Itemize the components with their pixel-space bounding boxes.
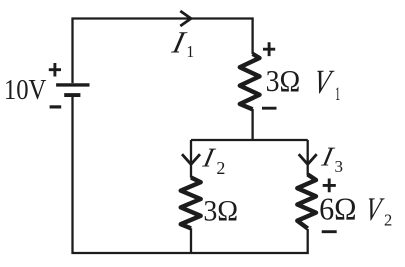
- svg-text:3: 3: [334, 157, 343, 176]
- svg-text:3Ω: 3Ω: [266, 63, 301, 98]
- svg-text:2: 2: [384, 210, 392, 229]
- svg-text:1: 1: [186, 42, 194, 61]
- svg-text:3Ω: 3Ω: [203, 196, 238, 228]
- svg-text:6Ω: 6Ω: [319, 192, 357, 227]
- svg-text:2: 2: [216, 158, 225, 178]
- svg-text:10V: 10V: [4, 75, 47, 106]
- svg-text:1: 1: [335, 84, 340, 105]
